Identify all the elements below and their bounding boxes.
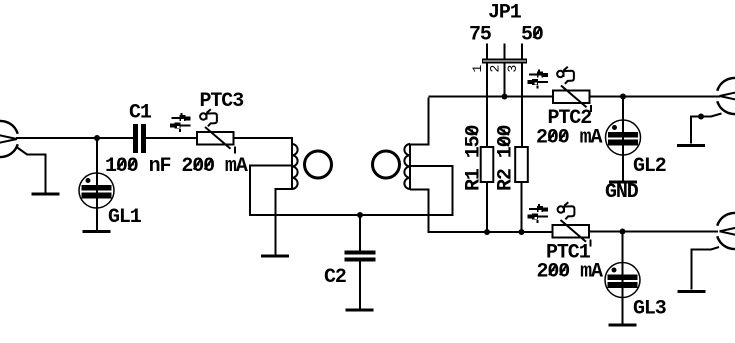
svg-text:200 mA: 200 mA bbox=[537, 261, 604, 284]
JP1 pin number 3 bbox=[505, 65, 520, 73]
node junction C2 tap bbox=[357, 212, 363, 218]
svg-text:1: 1 bbox=[470, 65, 485, 73]
wire: JP1 pin 1 to R1 bbox=[486, 64, 488, 148]
wire: top rail bbox=[429, 96, 554, 98]
PTC3 theta curl bbox=[200, 109, 217, 126]
ground (primary) bbox=[261, 255, 289, 258]
value C1 100 nF and PTC3 200 mA bbox=[105, 155, 248, 178]
wire: JP1 pin 2 to top rail bbox=[504, 64, 506, 97]
value PTC1 200 mA bbox=[537, 261, 604, 284]
wire: connector X1 pin to node A bbox=[16, 137, 134, 139]
svg-text:GL1: GL1 bbox=[108, 206, 142, 229]
node junction X2 shell bbox=[698, 114, 704, 120]
ground (GL3) bbox=[609, 324, 637, 327]
wire: connector X2 shell to ground bbox=[691, 114, 722, 144]
ground (GL2) bbox=[609, 181, 637, 184]
transformer TR1 secondary winding bbox=[404, 144, 410, 190]
PTC3 arrows bbox=[170, 113, 191, 132]
PTC2 theta curl bbox=[557, 67, 574, 84]
connector X1 left (coax) bbox=[0, 121, 18, 157]
wire: secondary top to rail bbox=[410, 98, 429, 145]
svg-text:R2 100: R2 100 bbox=[495, 125, 518, 191]
pin header JP1 bbox=[482, 44, 527, 64]
ground (left connector) bbox=[32, 193, 60, 196]
wire: primary bottom to ground bbox=[276, 189, 293, 255]
JP1 pin number 2 bbox=[488, 65, 503, 73]
svg-text:C1: C1 bbox=[129, 102, 152, 125]
svg-text:200 mA: 200 mA bbox=[536, 127, 603, 150]
transformer TR1 core circle left bbox=[305, 151, 332, 178]
surge arrester GL1 bbox=[79, 173, 114, 208]
wire: primary center tap to bus bbox=[250, 166, 293, 217]
wire: PTC1 to GL3 node bbox=[589, 231, 718, 233]
svg-text:R1 150: R1 150 bbox=[463, 125, 486, 191]
wire: node down through GL3 bbox=[622, 232, 624, 324]
resistor R2 bbox=[515, 147, 528, 182]
wire: center tap bus bbox=[249, 214, 453, 216]
svg-text:75: 75 bbox=[469, 24, 491, 47]
wire: connector X1 shell to ground bbox=[17, 147, 46, 193]
surge arrester GL2 bbox=[606, 120, 641, 155]
svg-text:C2: C2 bbox=[324, 266, 346, 289]
svg-text:2: 2 bbox=[488, 65, 503, 73]
svg-text:JP1: JP1 bbox=[488, 2, 522, 25]
wire: C2 to ground bbox=[359, 262, 361, 309]
wire: PTC3 to transformer primary bbox=[234, 137, 294, 139]
wire: secondary bottom to lower rail bbox=[410, 190, 429, 234]
capacitor C1 bbox=[133, 124, 146, 153]
wire: C1 to PTC3 bbox=[146, 137, 197, 139]
wire: JP1 pin 3 to R2 bbox=[521, 64, 523, 148]
node junction GL3 bbox=[620, 229, 626, 235]
svg-text:100 nF 200 mA: 100 nF 200 mA bbox=[105, 155, 248, 178]
wire: PTC2 to GL2 node bbox=[590, 96, 721, 98]
node junction R2/lower rail bbox=[519, 229, 525, 235]
wire: R1 to lower rail bbox=[486, 182, 488, 232]
PTC fuse PTC2 bbox=[553, 86, 591, 113]
wire: node A down to GL1 bbox=[96, 138, 98, 230]
ground (GL1) bbox=[83, 230, 111, 233]
PTC fuse PTC1 bbox=[553, 220, 591, 247]
wire: node down through GL2 bbox=[622, 97, 624, 181]
transformer TR1 primary winding bbox=[292, 138, 298, 189]
PTC fuse PTC3 bbox=[197, 127, 235, 154]
wire: R2 to lower rail bbox=[521, 182, 523, 232]
svg-text:GND: GND bbox=[605, 181, 639, 204]
label R1 150 bbox=[463, 125, 486, 191]
node A junction bbox=[94, 135, 100, 141]
label R2 100 bbox=[495, 125, 518, 191]
wire: secondary center tap to bus bbox=[410, 166, 453, 216]
transformer TR1 core circle right bbox=[373, 151, 400, 178]
connector X2 top right (coax) bbox=[717, 78, 735, 114]
svg-text:GL2: GL2 bbox=[633, 155, 666, 178]
node junction R1/lower rail bbox=[484, 229, 490, 235]
svg-text:GL3: GL3 bbox=[633, 298, 666, 321]
PTC1 arrows bbox=[528, 204, 549, 223]
PTC2 arrows bbox=[528, 70, 549, 89]
ground (X2 shell) bbox=[677, 144, 705, 147]
label 50 bbox=[521, 24, 543, 47]
ground (C2) bbox=[346, 309, 374, 312]
value PTC2 200 mA bbox=[536, 127, 603, 150]
svg-text:3: 3 bbox=[505, 65, 520, 73]
surge arrester GL3 bbox=[605, 263, 640, 298]
resistor R1 bbox=[481, 147, 494, 182]
wire: lower rail bbox=[429, 231, 553, 233]
wire: bus down to C2 bbox=[359, 215, 361, 251]
ground (X3 shell) bbox=[678, 290, 706, 293]
JP1 pin number 1 bbox=[470, 65, 485, 73]
PTC1 theta curl bbox=[558, 202, 575, 219]
connector X3 bottom right (coax) bbox=[717, 213, 735, 249]
node junction pin2/top rail bbox=[502, 94, 508, 100]
wire: connector X3 shell to ground bbox=[692, 247, 720, 290]
capacitor C2 bbox=[345, 251, 376, 262]
svg-text:PTC3: PTC3 bbox=[200, 90, 244, 113]
svg-text:50: 50 bbox=[521, 24, 543, 47]
node junction GL2 bbox=[620, 94, 626, 100]
